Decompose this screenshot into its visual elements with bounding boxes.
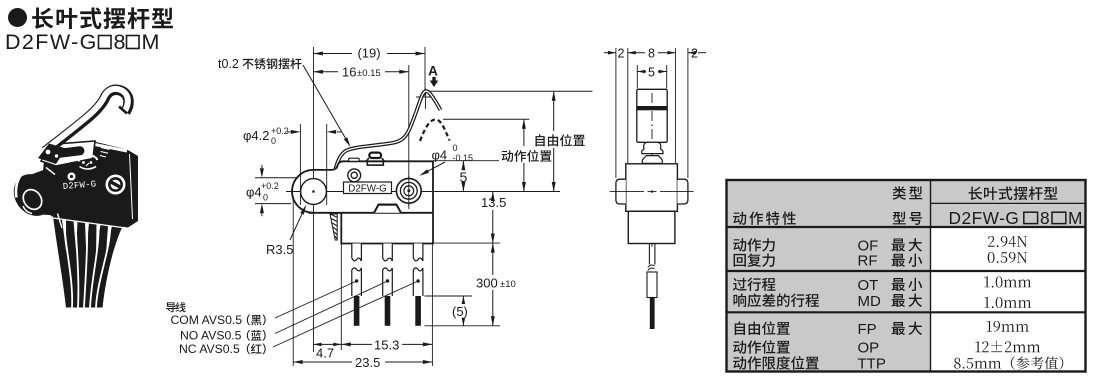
- horizontal centerline through holes: [286, 191, 560, 193]
- svg-text:+0.2: +0.2: [271, 126, 289, 136]
- svg-text:t0.2: t0.2: [218, 57, 239, 71]
- table row OT: [733, 278, 776, 292]
- svg-text:-0.15: -0.15: [453, 153, 474, 163]
- hatched lever end wedge: [330, 214, 337, 240]
- table grid: [931, 202, 1086, 204]
- svg-text:D2FW-G: D2FW-G: [5, 30, 98, 54]
- svg-text:TTP: TTP: [858, 355, 886, 372]
- lever t0.2 stainless (double line): [336, 91, 441, 168]
- svg-text:16: 16: [342, 65, 356, 80]
- 3D cylinder highlights: [16, 177, 20, 198]
- svg-text:(19): (19): [357, 45, 380, 60]
- extension line / plunger centerline x=408.8: [408, 65, 410, 209]
- dimension 5: [433, 160, 499, 162]
- svg-text:φ4: φ4: [246, 185, 262, 200]
- svg-text:NO AVS0.5: NO AVS0.5: [180, 329, 242, 343]
- table row RF: [734, 253, 775, 267]
- 3D lever band: [45, 90, 129, 152]
- switch body outline (front view): [309, 161, 434, 243]
- svg-text:5: 5: [460, 169, 468, 185]
- spec table background: [727, 180, 1086, 372]
- dimension 23.5: [293, 361, 352, 363]
- label 导线: [166, 302, 186, 312]
- svg-text:φ4.2: φ4.2: [243, 128, 270, 143]
- small screw hole: [348, 169, 361, 182]
- svg-text:13.5: 13.5: [481, 195, 506, 210]
- side view mounting ears: [616, 179, 626, 204]
- svg-text:A: A: [428, 64, 438, 79]
- extension line x=425 for (19): [424, 47, 426, 96]
- svg-text:D2FW-G: D2FW-G: [348, 183, 386, 194]
- svg-text:MD: MD: [858, 293, 881, 310]
- svg-text:5: 5: [648, 66, 655, 80]
- small tab on top: [349, 158, 360, 161]
- svg-text:RF: RF: [858, 253, 878, 270]
- free position reference line: [430, 90, 593, 92]
- svg-text:0: 0: [263, 193, 268, 203]
- side dimension 2 / 8 / 2: [604, 52, 616, 54]
- table row OP: [733, 340, 790, 354]
- dimension (19): [314, 53, 353, 55]
- table row TTP: [733, 356, 819, 370]
- side view horizontal centerline: [610, 191, 644, 193]
- 3D mechanism dome: [79, 155, 98, 162]
- dimension 16±0.15: [314, 71, 339, 73]
- svg-text:OP: OP: [858, 340, 880, 357]
- 3D lever base plate: [41, 141, 95, 166]
- svg-text:COM AVS0.5: COM AVS0.5: [171, 313, 243, 327]
- 3D wires: [53, 217, 123, 308]
- svg-text:23.5: 23.5: [355, 355, 380, 370]
- svg-text:0: 0: [271, 136, 276, 146]
- leader to lever: [303, 65, 346, 138]
- svg-text:FP: FP: [858, 321, 877, 338]
- label 动作位置: [502, 150, 552, 162]
- hole tangent extension x=326.7: [326, 124, 328, 205]
- case top bump: [374, 205, 401, 213]
- operating position dimension line: [523, 119, 525, 146]
- dashed lever at operating position: [420, 120, 450, 142]
- dimension 4.7: [314, 343, 342, 345]
- side view body: [626, 164, 678, 212]
- side view extension lines: [615, 48, 617, 178]
- svg-text:(5): (5): [452, 304, 468, 319]
- label 自由位置: [536, 134, 585, 146]
- operating position reference line: [443, 118, 529, 120]
- 3D screw boss: [106, 175, 126, 195]
- table row MD: [734, 293, 820, 307]
- value 8.5mm（参考值）: [954, 356, 1063, 369]
- svg-text:15.3: 15.3: [374, 338, 399, 353]
- leader lines to wires: [275, 281, 357, 318]
- svg-text:8: 8: [114, 30, 126, 54]
- left extension x=293.2 for 23.5: [292, 196, 294, 366]
- table row FP: [735, 321, 790, 335]
- svg-text:+0.2: +0.2: [261, 181, 279, 191]
- crosshair at lever tip A: [425, 89, 427, 110]
- case-left extension x=341.3: [340, 244, 342, 351]
- side dimension 5: [637, 70, 645, 74]
- svg-text:OT: OT: [858, 277, 879, 294]
- dimension 13.5: [492, 192, 494, 196]
- svg-text:±0.15: ±0.15: [357, 68, 381, 79]
- 3D top face stripe: [90, 144, 127, 152]
- terminals with break and wires: [352, 244, 362, 262]
- side view wire: [648, 244, 650, 265]
- right extension x=432.4: [431, 244, 433, 367]
- svg-text:D2FW-G: D2FW-G: [949, 208, 1020, 228]
- table header 长叶式摆杆型: [969, 186, 1058, 200]
- svg-text:2: 2: [618, 47, 625, 61]
- free position dimension line: [553, 91, 555, 131]
- rounded end R3.5 lobe: [292, 170, 313, 213]
- 3D lever tip cut: [119, 107, 127, 114]
- 3D nameplate D2FW-G: [62, 179, 96, 192]
- dimension 300±10: [492, 243, 494, 275]
- svg-text:2: 2: [691, 47, 698, 61]
- svg-text:M: M: [1068, 208, 1082, 228]
- svg-text:4.7: 4.7: [316, 346, 334, 361]
- 3D small screw hole: [68, 173, 76, 181]
- dimension (5): [425, 295, 473, 297]
- svg-text:R3.5: R3.5: [266, 242, 293, 257]
- hole tangent extension x=300.4: [299, 124, 301, 205]
- plunger hole φ4 (concentric circles): [396, 178, 421, 203]
- table row OF: [733, 238, 775, 252]
- svg-text:300: 300: [476, 276, 498, 291]
- side view lever strip: [637, 89, 667, 142]
- 3D lever clamp: [38, 144, 66, 165]
- 3D body main block: [40, 141, 138, 228]
- button on top: [369, 153, 381, 158]
- side view vertical centerline: [651, 93, 653, 247]
- table header 类型 / 型号 / 动作特性: [893, 186, 923, 199]
- svg-text:±10: ±10: [500, 279, 516, 290]
- svg-text:0: 0: [453, 143, 458, 153]
- svg-text:M: M: [142, 30, 160, 54]
- svg-text:NC AVS0.5: NC AVS0.5: [179, 342, 240, 356]
- dimension 15.3: [341, 343, 372, 345]
- svg-text:8: 8: [1040, 208, 1050, 228]
- side view clip: [642, 142, 663, 153]
- title bullet: [8, 8, 27, 27]
- svg-text:8: 8: [648, 47, 655, 61]
- title text 长叶式摆杆型: [32, 7, 173, 29]
- 3D product illustration: [6, 89, 138, 308]
- mounting hole φ4.2: [301, 179, 327, 205]
- centerline through mounting hole (vertical): [313, 47, 315, 352]
- D2FW-G nameplate: [344, 182, 392, 194]
- case split line: [341, 212, 433, 214]
